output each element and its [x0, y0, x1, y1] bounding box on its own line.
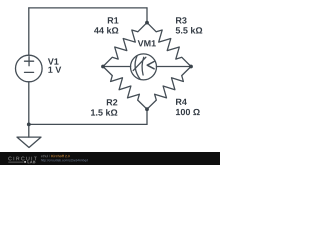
- label R4 name: [176, 99, 187, 105]
- watermark url: [41, 159, 88, 162]
- watermark bar: [0, 152, 220, 165]
- label R1 name: [108, 17, 119, 23]
- label VM1: [138, 40, 156, 46]
- watermark logo LAB: [28, 161, 36, 163]
- wire voltmeter to right node: [156, 66, 191, 68]
- label R4 value: [176, 109, 200, 115]
- wire left rail top (corner to V1 top): [28, 8, 30, 55]
- watermark logo CIRCUIT: [8, 157, 37, 161]
- label R3 name: [176, 17, 187, 23]
- watermark credit line: [41, 155, 50, 157]
- resistor R2: [103, 67, 147, 110]
- wire bottom node riser: [146, 109, 148, 124]
- label V1 value: [48, 67, 61, 73]
- node bottom: [145, 107, 149, 111]
- wire top node drop: [146, 8, 148, 23]
- wire bottom horizontal: [29, 123, 147, 125]
- node top: [145, 21, 149, 25]
- resistor R1: [103, 23, 147, 67]
- watermark logo rule: [8, 161, 23, 163]
- node left: [101, 65, 105, 69]
- wire top horizontal: [29, 7, 147, 9]
- label R2 name: [107, 99, 118, 105]
- label R1 value: [94, 27, 118, 34]
- watermark logo chip: [24, 161, 26, 163]
- resistor R4: [147, 67, 191, 110]
- wire V1 bottom to ground junction: [28, 82, 30, 125]
- label R2 value: [91, 109, 117, 116]
- node ground junction: [27, 123, 31, 127]
- voltage source V1: [15, 55, 42, 82]
- node right: [189, 65, 193, 69]
- label R3 value: [176, 27, 203, 34]
- wire left node to voltmeter: [103, 66, 131, 68]
- voltmeter VM1: [131, 54, 157, 80]
- ground: [17, 124, 41, 147]
- label V1 name: [48, 58, 59, 64]
- resistor R3: [147, 23, 191, 67]
